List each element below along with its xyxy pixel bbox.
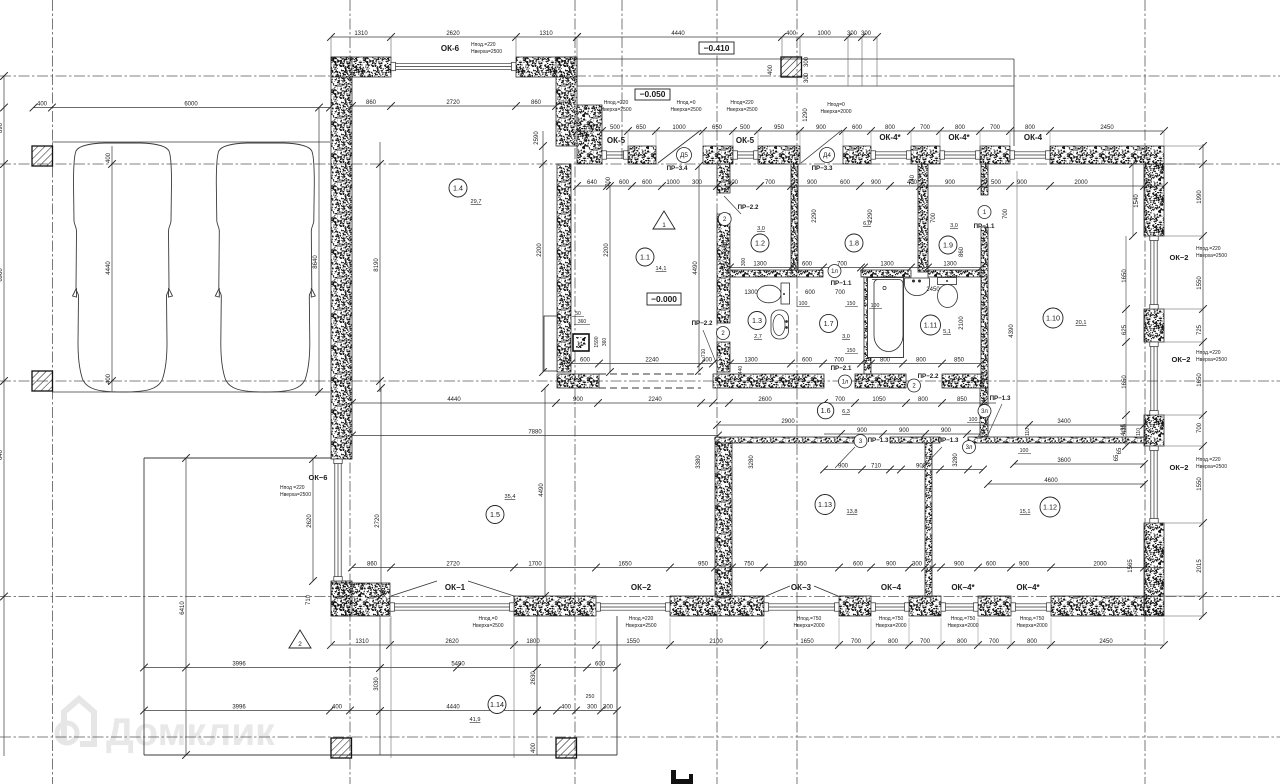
svg-text:2100: 2100 <box>959 316 965 330</box>
svg-text:−0.000: −0.000 <box>651 294 677 304</box>
svg-text:100: 100 <box>799 301 808 307</box>
svg-text:6000: 6000 <box>184 101 198 107</box>
svg-text:2290: 2290 <box>812 209 818 223</box>
svg-text:400: 400 <box>768 64 774 75</box>
svg-text:ОК-4*: ОК-4* <box>948 133 970 142</box>
svg-text:1л: 1л <box>842 380 849 386</box>
room circle 1.8 <box>845 234 863 252</box>
svg-text:880: 880 <box>723 241 729 252</box>
svg-text:Нпод.=750: Нпод.=750 <box>1020 616 1045 622</box>
svg-text:800: 800 <box>1027 639 1038 645</box>
exterior wall bottom <box>331 583 390 616</box>
svg-text:Домклик: Домклик <box>106 711 275 754</box>
svg-text:1650: 1650 <box>793 561 807 567</box>
svg-text:2720: 2720 <box>446 561 460 567</box>
svg-text:900: 900 <box>945 180 956 186</box>
svg-text:2000: 2000 <box>1093 561 1107 567</box>
svg-text:400: 400 <box>37 101 48 107</box>
room 1.14 circle <box>488 696 506 714</box>
svg-text:3400: 3400 <box>1057 419 1071 425</box>
svg-text:2200: 2200 <box>537 243 543 257</box>
svg-text:400: 400 <box>106 373 112 384</box>
svg-text:500: 500 <box>740 125 751 131</box>
dim 3600 and 4600 right <box>1014 463 1144 465</box>
svg-text:500: 500 <box>991 180 1002 186</box>
svg-text:Нпод.=220: Нпод.=220 <box>1196 457 1221 463</box>
toilet room 1.11 <box>938 278 957 285</box>
svg-text:710: 710 <box>871 463 882 469</box>
svg-text:2620: 2620 <box>446 31 460 37</box>
svg-text:700: 700 <box>990 125 1001 131</box>
svg-text:Нверха=2500: Нверха=2500 <box>626 623 657 629</box>
svg-text:700: 700 <box>920 125 931 131</box>
svg-text:600: 600 <box>853 561 864 567</box>
svg-text:700: 700 <box>834 357 845 363</box>
svg-text:41,9: 41,9 <box>470 717 481 723</box>
svg-text:725: 725 <box>1197 324 1203 335</box>
svg-text:800: 800 <box>885 125 896 131</box>
svg-text:Нпод.=750: Нпод.=750 <box>951 616 976 622</box>
svg-text:1300: 1300 <box>744 357 758 363</box>
interior wall room1.2/1.8 <box>791 164 798 270</box>
svg-text:4440: 4440 <box>447 397 461 403</box>
svg-text:1.7: 1.7 <box>824 319 834 328</box>
svg-text:13,8: 13,8 <box>847 509 858 515</box>
svg-text:400: 400 <box>561 100 572 106</box>
svg-text:1310: 1310 <box>355 639 369 645</box>
svg-text:890: 890 <box>0 122 4 133</box>
svg-text:600: 600 <box>619 180 630 186</box>
svg-text:ОК−3: ОК−3 <box>791 583 812 592</box>
leader lines window OK-3 <box>766 586 790 596</box>
elevation mark 0.000 <box>647 293 681 305</box>
svg-text:2450: 2450 <box>926 287 940 293</box>
svg-text:650: 650 <box>712 125 723 131</box>
svg-text:14,1: 14,1 <box>656 266 667 272</box>
svg-text:900: 900 <box>871 180 882 186</box>
interior wall x717 hall/room1.2 <box>717 164 730 193</box>
svg-text:Нверха=2000: Нверха=2000 <box>876 623 907 629</box>
svg-text:4440: 4440 <box>671 31 685 37</box>
svg-text:900: 900 <box>838 463 849 469</box>
dim chain inside top wall 640..400 <box>577 185 1164 187</box>
svg-text:1650: 1650 <box>800 639 814 645</box>
svg-text:3996: 3996 <box>232 661 246 667</box>
svg-text:6,3: 6,3 <box>842 409 850 415</box>
interior wall horizontal y374 main <box>557 374 599 388</box>
svg-text:1.10: 1.10 <box>1046 314 1060 323</box>
svg-text:Нпод.=750: Нпод.=750 <box>797 616 822 622</box>
svg-text:850: 850 <box>954 357 965 363</box>
svg-text:860: 860 <box>531 100 542 106</box>
window OK-6 top <box>392 62 515 64</box>
svg-text:400: 400 <box>786 31 797 37</box>
dim chain top porch 4440-400-1000-300-300 <box>577 36 877 38</box>
svg-text:110: 110 <box>1025 428 1031 436</box>
svg-text:ОК-4: ОК-4 <box>1024 133 1043 142</box>
dim vertical 2590/2200 nook <box>542 131 544 372</box>
svg-text:440: 440 <box>738 366 744 375</box>
svg-text:900: 900 <box>1019 561 1030 567</box>
svg-text:2200: 2200 <box>604 243 610 257</box>
leader lines window OK-1 <box>391 581 437 596</box>
svg-text:1650: 1650 <box>618 561 632 567</box>
svg-text:700: 700 <box>989 639 1000 645</box>
svg-text:1.3: 1.3 <box>752 316 762 325</box>
car 2 in carport <box>215 143 315 392</box>
svg-text:300: 300 <box>861 31 872 37</box>
svg-text:Нпод.=750: Нпод.=750 <box>879 616 904 622</box>
svg-text:4440: 4440 <box>446 704 460 710</box>
far left vertical chain <box>3 76 5 756</box>
svg-text:Нпод=0: Нпод=0 <box>827 102 845 108</box>
svg-text:400: 400 <box>332 704 343 710</box>
dim row below corridor 900-710-900 <box>824 469 983 471</box>
dim chain y403 4440-900-2240-2600-700-1050-800-850 <box>352 402 996 404</box>
svg-text:ПР−1.3: ПР−1.3 <box>990 395 1011 402</box>
svg-text:600: 600 <box>840 180 851 186</box>
svg-text:150: 150 <box>847 301 856 307</box>
svg-text:1550: 1550 <box>1197 477 1203 491</box>
svg-text:35,4: 35,4 <box>505 494 516 500</box>
room circle 1.12 <box>1040 497 1060 517</box>
window OK-4 top <box>1011 151 1049 153</box>
svg-text:1310: 1310 <box>354 31 368 37</box>
svg-text:2100: 2100 <box>709 639 723 645</box>
windows OK-2 right wall <box>1150 237 1152 308</box>
dim vertical 8640 outside left wall <box>318 108 320 393</box>
svg-text:1.1: 1.1 <box>640 253 650 262</box>
svg-text:1.4: 1.4 <box>453 184 463 193</box>
svg-text:2620: 2620 <box>307 514 313 528</box>
svg-text:850: 850 <box>957 397 968 403</box>
svg-text:8640: 8640 <box>313 255 319 269</box>
svg-text:2900: 2900 <box>781 419 795 425</box>
svg-text:2720: 2720 <box>446 100 460 106</box>
room circle 1.1 <box>636 248 654 266</box>
svg-text:2720: 2720 <box>375 514 381 528</box>
svg-text:3,0: 3,0 <box>842 334 850 340</box>
svg-text:100: 100 <box>1020 448 1029 454</box>
svg-text:4490: 4490 <box>539 483 545 497</box>
svg-text:−0.410: −0.410 <box>704 43 730 53</box>
svg-text:2600: 2600 <box>758 397 772 403</box>
svg-text:Нверха=2500: Нверха=2500 <box>1196 357 1227 363</box>
svg-text:300: 300 <box>702 357 713 363</box>
svg-text:1.11: 1.11 <box>924 321 937 330</box>
exterior wall right (axis) <box>1144 164 1164 236</box>
svg-text:Нверха=2000: Нверха=2000 <box>948 623 979 629</box>
svg-text:ОК−1: ОК−1 <box>445 583 466 592</box>
svg-text:1.2: 1.2 <box>755 239 765 248</box>
svg-text:950: 950 <box>698 561 709 567</box>
svg-text:1590: 1590 <box>594 336 600 347</box>
column hatched left top <box>32 146 53 166</box>
svg-text:150: 150 <box>847 348 856 354</box>
window OK-4 bottom <box>872 603 908 605</box>
svg-text:50: 50 <box>575 311 581 317</box>
black scale mark bottom <box>671 770 693 784</box>
svg-text:300: 300 <box>912 561 923 567</box>
svg-text:7880: 7880 <box>528 429 542 435</box>
svg-text:Нпод.=220: Нпод.=220 <box>604 100 629 106</box>
svg-text:360: 360 <box>578 319 587 325</box>
dim chain y645 bottom second row <box>331 644 1164 646</box>
car 1 in carport <box>73 143 173 392</box>
svg-text:1800: 1800 <box>526 639 540 645</box>
svg-text:Нверха=2500: Нверха=2500 <box>471 49 502 55</box>
interior wall garage/hall x557 <box>557 164 571 372</box>
svg-text:700: 700 <box>931 212 937 223</box>
svg-text:1990: 1990 <box>1197 190 1203 204</box>
dim row above y374 wall <box>730 363 981 365</box>
svg-text:600: 600 <box>802 357 813 363</box>
svg-text:800: 800 <box>916 357 927 363</box>
svg-text:1310: 1310 <box>539 31 553 37</box>
svg-text:Нверха=2000: Нверха=2000 <box>794 623 825 629</box>
room circle 1.7 <box>820 314 838 332</box>
svg-text:1300: 1300 <box>753 261 767 267</box>
svg-text:700: 700 <box>835 290 846 296</box>
svg-text:750: 750 <box>744 561 755 567</box>
svg-text:ПР−1.3: ПР−1.3 <box>938 437 959 444</box>
svg-text:900: 900 <box>857 428 868 434</box>
svg-text:1.5: 1.5 <box>490 510 500 519</box>
svg-text:ПР−2.1: ПР−2.1 <box>831 365 852 372</box>
svg-text:2450: 2450 <box>1100 125 1114 131</box>
exterior wall left (axis A) <box>331 57 352 459</box>
svg-text:400: 400 <box>561 704 572 710</box>
svg-text:435: 435 <box>1122 423 1128 434</box>
svg-text:100: 100 <box>969 417 978 423</box>
svg-text:ПР−3.3: ПР−3.3 <box>812 165 833 172</box>
svg-text:1.13: 1.13 <box>818 500 832 509</box>
window OK-3 bottom <box>765 603 838 605</box>
garage pilaster <box>544 316 557 371</box>
svg-text:860: 860 <box>366 100 377 106</box>
svg-text:800: 800 <box>1025 125 1036 131</box>
window OK-4* bottom b <box>1012 603 1050 605</box>
svg-text:8190: 8190 <box>374 258 380 272</box>
svg-text:710: 710 <box>701 349 707 358</box>
svg-text:4490: 4490 <box>693 261 699 275</box>
grid axis lines dash-dot <box>52 0 54 784</box>
svg-text:600: 600 <box>986 561 997 567</box>
watermark Domclick logo <box>57 699 94 744</box>
svg-text:−0.050: −0.050 <box>640 89 666 99</box>
terrace dim row 3996-400-4440-400-300-300 <box>144 710 617 712</box>
svg-text:900: 900 <box>954 561 965 567</box>
interior wall thin y437 corridor <box>715 437 862 443</box>
svg-text:5,1: 5,1 <box>943 329 951 335</box>
svg-text:300: 300 <box>692 180 703 186</box>
column hatched left bottom <box>32 371 53 391</box>
svg-text:700: 700 <box>1003 208 1009 219</box>
window OK-4* top b <box>941 151 979 153</box>
exterior wall vertical between garage and porch <box>556 57 577 146</box>
room circle 1.5 <box>486 506 504 524</box>
svg-text:Нпод.=220: Нпод.=220 <box>1196 246 1221 252</box>
svg-text:1540: 1540 <box>1134 194 1140 208</box>
svg-text:ПР−3.4: ПР−3.4 <box>667 165 688 172</box>
svg-text:1000: 1000 <box>817 31 831 37</box>
svg-text:Нверха=2500: Нверха=2500 <box>280 492 311 498</box>
porch slab at entrance <box>577 58 1014 60</box>
svg-text:1.6: 1.6 <box>821 406 831 415</box>
svg-text:4440: 4440 <box>106 261 112 275</box>
svg-text:ПР−1.3: ПР−1.3 <box>868 437 889 444</box>
svg-text:ОК-5: ОК-5 <box>736 136 755 145</box>
svg-text:Нпод.=220: Нпод.=220 <box>471 42 496 48</box>
svg-text:4390: 4390 <box>1009 324 1015 338</box>
svg-text:Нверха=2000: Нверха=2000 <box>1017 623 1048 629</box>
room circle 1.6 <box>817 402 833 418</box>
svg-text:300: 300 <box>847 31 858 37</box>
svg-text:15,1: 15,1 <box>1020 509 1031 515</box>
svg-text:5490: 5490 <box>451 661 465 667</box>
svg-text:600: 600 <box>580 357 591 363</box>
svg-text:600: 600 <box>642 180 653 186</box>
svg-text:29,7: 29,7 <box>471 199 482 205</box>
svg-text:2630: 2630 <box>531 671 537 685</box>
svg-text:3996: 3996 <box>232 704 246 710</box>
svg-text:250: 250 <box>586 694 595 700</box>
sink room 1.11 <box>905 278 930 296</box>
door D4 opening swing <box>801 130 842 163</box>
garage column 360x360 <box>573 334 589 351</box>
svg-text:1565: 1565 <box>1128 559 1134 573</box>
svg-text:1700: 1700 <box>528 561 542 567</box>
svg-text:300: 300 <box>804 72 810 83</box>
svg-text:3280: 3280 <box>749 455 755 469</box>
svg-text:2,7: 2,7 <box>754 334 762 340</box>
svg-text:600: 600 <box>728 180 739 186</box>
window OK-5 a <box>603 151 627 153</box>
svg-text:900: 900 <box>886 561 897 567</box>
terrace dim row 3996-5490-600 <box>144 667 617 669</box>
dim row above y270 wall 1300-600-700-1300-1300 <box>730 267 981 269</box>
svg-text:1.12: 1.12 <box>1043 503 1057 512</box>
interior wall bath x864 <box>864 277 871 374</box>
svg-text:790: 790 <box>723 258 729 269</box>
svg-text:3030: 3030 <box>374 677 380 691</box>
svg-text:1300: 1300 <box>880 261 894 267</box>
window OK-4* bottom a <box>942 603 977 605</box>
svg-text:20,1: 20,1 <box>1076 320 1087 326</box>
room circle 1.2 <box>751 234 769 252</box>
svg-text:2240: 2240 <box>648 397 662 403</box>
svg-text:500: 500 <box>610 125 621 131</box>
svg-text:Д5: Д5 <box>680 152 688 159</box>
svg-text:700: 700 <box>835 397 846 403</box>
svg-text:300: 300 <box>587 704 598 710</box>
room circle 1.10 <box>1043 308 1063 328</box>
svg-text:700: 700 <box>1197 422 1203 433</box>
interior wall x715 room1.5/1.13 <box>715 443 732 597</box>
svg-text:Нверха=2500: Нверха=2500 <box>1196 464 1227 470</box>
svg-text:640: 640 <box>0 449 4 460</box>
svg-text:Нверха=2500: Нверха=2500 <box>1196 253 1227 259</box>
svg-text:2590: 2590 <box>534 131 540 145</box>
terrace 1.14 outline <box>143 458 145 755</box>
svg-text:1300: 1300 <box>943 261 957 267</box>
svg-text:Нпод=220: Нпод=220 <box>730 100 753 106</box>
svg-text:860: 860 <box>959 246 965 257</box>
room circle 1.4 <box>449 179 467 197</box>
svg-text:2620: 2620 <box>445 639 459 645</box>
svg-text:800: 800 <box>957 639 968 645</box>
svg-text:1290: 1290 <box>803 108 809 122</box>
svg-text:640: 640 <box>587 180 598 186</box>
svg-text:65: 65 <box>1117 447 1123 454</box>
svg-text:600: 600 <box>852 125 863 131</box>
interior wall x925 room1.13/1.12 <box>925 443 932 597</box>
svg-text:ОК-6: ОК-6 <box>441 44 460 53</box>
dim chain top garage 1310-2620-1310 <box>331 36 577 38</box>
svg-text:ПР−1.1: ПР−1.1 <box>974 223 995 230</box>
svg-text:600: 600 <box>805 290 816 296</box>
svg-text:1550: 1550 <box>1197 276 1203 290</box>
dashed opening between garage and room 1.5 <box>599 373 701 375</box>
svg-text:Нпод.=0: Нпод.=0 <box>479 616 498 622</box>
svg-text:740: 740 <box>910 174 916 185</box>
dim vertical 2200 room1.1 <box>609 186 611 372</box>
svg-text:260: 260 <box>381 588 387 597</box>
toilet room 1.3 <box>757 285 781 303</box>
svg-text:ОК−4*: ОК−4* <box>1016 583 1040 592</box>
right outer chain <box>1202 144 1204 616</box>
window OK-2 bottom <box>597 603 669 605</box>
svg-text:1650: 1650 <box>1197 373 1203 387</box>
dim chain y567 bottom first row <box>352 567 1164 569</box>
svg-text:ОК−6: ОК−6 <box>309 473 328 482</box>
sink room 1.3 <box>771 310 789 339</box>
svg-text:860: 860 <box>367 561 378 567</box>
svg-text:ОК-4*: ОК-4* <box>879 133 901 142</box>
svg-text:110: 110 <box>1136 428 1142 436</box>
column hatched porch <box>781 57 802 77</box>
dim vertical 4490 room1.1 <box>698 166 700 371</box>
svg-text:590: 590 <box>584 125 595 131</box>
svg-text:700: 700 <box>765 180 776 186</box>
svg-text:Нверха=2500: Нверха=2500 <box>671 107 702 113</box>
svg-text:625: 625 <box>1122 324 1128 335</box>
room circle 1.13 <box>815 495 835 515</box>
elevation mark -0.410 <box>699 42 734 54</box>
svg-text:700: 700 <box>920 639 931 645</box>
svg-text:700: 700 <box>851 639 862 645</box>
window OK-5 b <box>734 151 757 153</box>
svg-text:Нпод.=0: Нпод.=0 <box>677 100 696 106</box>
svg-text:300: 300 <box>804 56 810 67</box>
svg-text:6960: 6960 <box>0 268 4 282</box>
svg-text:900: 900 <box>573 397 584 403</box>
svg-text:800: 800 <box>888 639 899 645</box>
svg-text:900: 900 <box>1017 180 1028 186</box>
svg-text:2240: 2240 <box>645 357 659 363</box>
svg-text:6410: 6410 <box>180 601 186 615</box>
dim vertical 8190 inside garage <box>379 142 381 392</box>
svg-text:ОК−2: ОК−2 <box>1172 355 1191 364</box>
window OK-6 left wall <box>334 460 336 580</box>
svg-text:ОК−2: ОК−2 <box>631 583 652 592</box>
svg-text:1300: 1300 <box>744 290 758 296</box>
dim 7880 line <box>352 435 718 437</box>
svg-text:710: 710 <box>306 594 312 605</box>
svg-text:4600: 4600 <box>1044 478 1058 484</box>
svg-text:400: 400 <box>106 152 112 163</box>
svg-text:1650: 1650 <box>1122 375 1128 389</box>
